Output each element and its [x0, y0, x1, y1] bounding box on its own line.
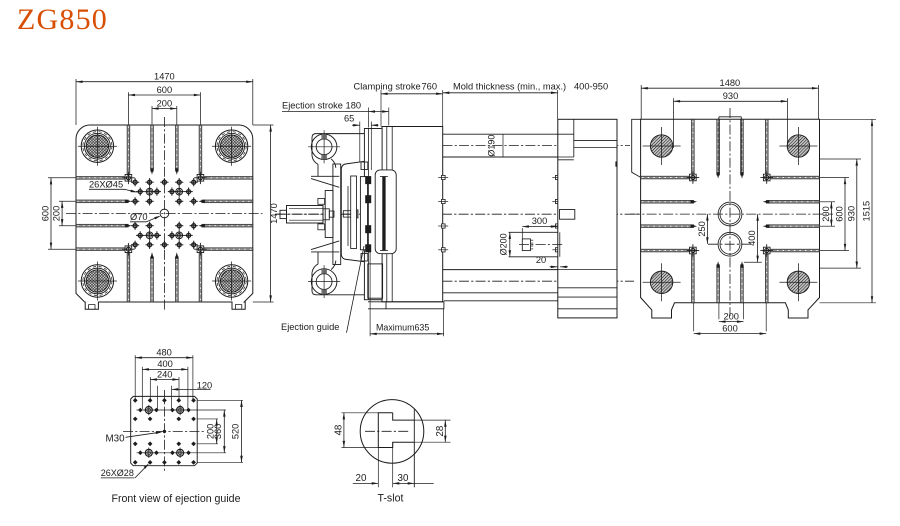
svg-text:Ø190: Ø190: [487, 135, 497, 157]
svg-text:Ejection guide: Ejection guide: [281, 322, 339, 332]
svg-text:Maximum635: Maximum635: [376, 322, 429, 332]
svg-text:760: 760: [422, 82, 438, 92]
svg-text:480: 480: [156, 348, 172, 358]
svg-text:26XØ28: 26XØ28: [101, 468, 134, 478]
svg-text:Clamping stroke: Clamping stroke: [354, 82, 421, 92]
svg-text:1470: 1470: [269, 203, 279, 224]
svg-text:Mold thickness (min., max.): Mold thickness (min., max.): [453, 82, 566, 92]
svg-text:Ejection stroke 180: Ejection stroke 180: [282, 100, 361, 110]
svg-text:20: 20: [356, 473, 367, 484]
svg-text:1470: 1470: [154, 72, 175, 82]
svg-text:200: 200: [723, 311, 739, 321]
svg-text:200: 200: [157, 98, 173, 108]
svg-text:240: 240: [157, 369, 173, 379]
svg-text:65: 65: [344, 113, 354, 123]
svg-text:400-950: 400-950: [574, 82, 608, 92]
svg-text:600: 600: [835, 206, 845, 222]
svg-text:930: 930: [723, 91, 739, 101]
svg-text:300: 300: [532, 216, 548, 226]
svg-text:200: 200: [52, 206, 62, 222]
svg-text:600: 600: [41, 206, 51, 222]
svg-text:28: 28: [435, 425, 446, 436]
svg-text:930: 930: [846, 206, 856, 222]
svg-text:400: 400: [747, 230, 757, 246]
svg-text:360: 360: [213, 424, 223, 440]
svg-text:600: 600: [722, 323, 738, 333]
svg-text:Ø200: Ø200: [498, 233, 508, 255]
svg-text:T-slot: T-slot: [378, 492, 404, 504]
svg-text:26XØ45: 26XØ45: [89, 179, 123, 189]
svg-text:520: 520: [230, 424, 240, 440]
svg-text:M30: M30: [106, 433, 126, 444]
svg-text:200: 200: [821, 206, 831, 222]
svg-text:Front view of ejection guide: Front view of ejection guide: [112, 493, 241, 505]
svg-text:400: 400: [157, 359, 173, 369]
svg-text:600: 600: [157, 85, 173, 95]
svg-text:250: 250: [697, 221, 707, 237]
svg-text:Ø70: Ø70: [130, 212, 148, 222]
svg-text:48: 48: [334, 424, 345, 435]
svg-text:1515: 1515: [862, 201, 872, 222]
svg-text:20: 20: [536, 255, 546, 265]
svg-text:1480: 1480: [720, 78, 741, 88]
